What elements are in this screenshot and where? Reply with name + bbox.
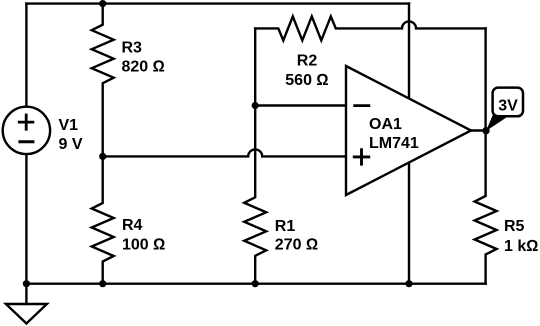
svg-text:R2: R2	[297, 53, 318, 70]
svg-text:820 Ω: 820 Ω	[122, 58, 165, 75]
svg-text:1 kΩ: 1 kΩ	[504, 238, 539, 255]
svg-text:LM741: LM741	[369, 135, 419, 152]
svg-text:560 Ω: 560 Ω	[285, 72, 328, 89]
svg-text:9 V: 9 V	[59, 136, 83, 153]
svg-text:OA1: OA1	[369, 116, 402, 133]
svg-text:R3: R3	[122, 39, 143, 56]
svg-text:3V: 3V	[498, 97, 518, 114]
svg-text:R5: R5	[504, 218, 525, 235]
svg-text:100 Ω: 100 Ω	[122, 236, 165, 253]
svg-text:R4: R4	[122, 217, 143, 234]
svg-text:270 Ω: 270 Ω	[275, 236, 318, 253]
svg-text:R1: R1	[275, 218, 296, 235]
svg-text:V1: V1	[59, 117, 79, 134]
